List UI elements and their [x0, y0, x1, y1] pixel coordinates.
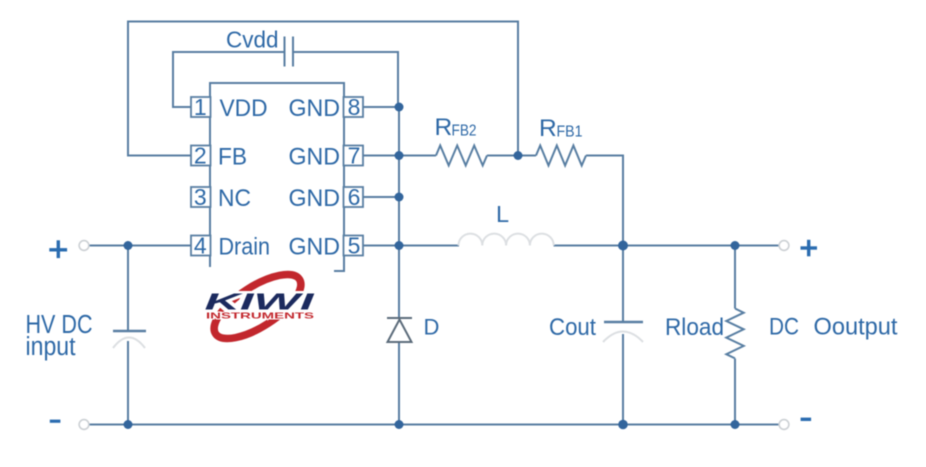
wire Cvdd loop right: [294, 52, 398, 107]
wire RFB2 leads: [399, 155, 518, 157]
resistor RFB2: [436, 146, 487, 166]
svg-text:GND: GND: [289, 185, 341, 212]
wire pin7 stub: [363, 155, 399, 157]
resistor Rload: [726, 309, 743, 359]
capacitor Cin curved plate: [113, 338, 145, 349]
svg-text:4: 4: [194, 233, 207, 259]
node Cout bottom: [618, 420, 628, 430]
svg-text:Drain: Drain: [219, 234, 271, 261]
minus sign output: [801, 418, 812, 421]
pin 5 box: [344, 236, 364, 256]
svg-text:GND: GND: [289, 144, 341, 171]
wire Cvdd loop left: [173, 52, 284, 107]
pin 2 box: [191, 146, 211, 166]
node pin6-bus: [395, 193, 404, 202]
plus sign output: [801, 240, 818, 256]
svg-text:FB2: FB2: [452, 123, 477, 140]
wire FB loop top: [128, 22, 518, 156]
pin 3 box: [191, 187, 211, 207]
resistor RFB1: [536, 146, 586, 166]
svg-text:6: 6: [348, 184, 361, 210]
wire bottom rail: [89, 424, 779, 426]
diode D wires: [398, 342, 400, 425]
svg-text:7: 7: [348, 143, 361, 169]
pin 7 box: [344, 146, 364, 166]
svg-text:NC: NC: [218, 185, 251, 212]
terminal - input: [79, 420, 89, 430]
node Cout top: [618, 241, 628, 251]
capacitor Cout plate: [604, 321, 643, 324]
wire pin6 stub: [363, 196, 399, 198]
capacitor Cvdd: [285, 37, 294, 67]
logo KIWI Instruments: [196, 262, 334, 352]
svg-text:Ooutput: Ooutput: [814, 314, 898, 341]
wire pin8 stub: [363, 106, 399, 108]
svg-text:1: 1: [194, 94, 207, 120]
wire input rail left: [89, 245, 191, 247]
pin 1 box: [191, 97, 211, 117]
svg-text:R: R: [539, 115, 557, 142]
node Rload bottom: [731, 420, 740, 429]
plus sign input: [49, 240, 67, 258]
terminal + output: [779, 241, 789, 251]
svg-text:5: 5: [348, 233, 361, 259]
svg-text:Cout: Cout: [549, 314, 596, 341]
svg-text:8: 8: [348, 94, 361, 120]
node diode bottom: [395, 420, 404, 429]
node RFB divider: [514, 151, 523, 160]
svg-text:VDD: VDD: [220, 95, 268, 122]
capacitor Cin branch: [127, 246, 129, 332]
svg-text:GND: GND: [289, 234, 341, 261]
capacitor Cout curved plate: [603, 332, 643, 343]
svg-text:R: R: [435, 114, 453, 141]
wire pin5 to inductor: [363, 245, 459, 247]
svg-text:L: L: [496, 201, 509, 227]
minus sign input: [50, 420, 61, 423]
svg-text:Cvdd: Cvdd: [226, 27, 279, 53]
svg-text:Rload: Rload: [665, 314, 724, 341]
svg-text:INSTRUMENTS: INSTRUMENTS: [206, 310, 315, 320]
svg-text:GND: GND: [289, 95, 341, 122]
node pin7-bus: [395, 151, 404, 160]
svg-text:2: 2: [194, 143, 207, 169]
pin 4 box: [191, 236, 211, 256]
node input cap top: [124, 241, 133, 250]
capacitor Cin plate: [113, 330, 146, 333]
pin 6 box: [344, 187, 364, 207]
wire inductor to output: [554, 245, 780, 247]
node bus-rail: [395, 241, 404, 250]
svg-text:input: input: [26, 333, 76, 361]
capacitor Cout branch: [622, 246, 624, 425]
node pin8-bus: [395, 103, 404, 112]
wire GND bus: [398, 107, 400, 318]
pin 8 box: [344, 97, 364, 117]
node input cap bottom: [124, 420, 133, 429]
svg-text:FB1: FB1: [557, 124, 583, 141]
svg-text:3: 3: [194, 184, 207, 210]
svg-text:D: D: [424, 315, 440, 340]
node Rload top: [731, 241, 740, 250]
resistor Rload leads: [734, 246, 736, 425]
svg-text:FB: FB: [218, 144, 247, 171]
IC U1 body: [210, 83, 344, 271]
diode D: [387, 318, 412, 342]
wire RFB1 leads: [518, 156, 623, 246]
inductor L: [459, 234, 554, 246]
terminal - output: [779, 420, 789, 430]
terminal + input: [79, 241, 89, 251]
svg-text:DC: DC: [769, 314, 799, 341]
